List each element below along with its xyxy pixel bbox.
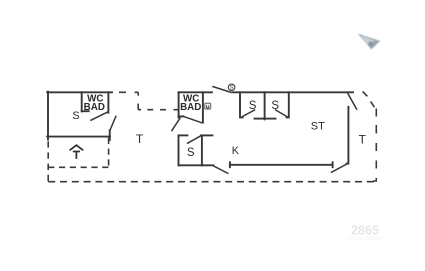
bedroom 1 west wall: [240, 92, 243, 117]
left building west wall: [47, 92, 49, 140]
left building east door leaf: [110, 116, 116, 130]
logo paper plane: [358, 34, 380, 50]
entrance arrow: [70, 145, 84, 159]
left building bottom wall: [47, 136, 110, 138]
spa icon next to BAD: [205, 103, 211, 109]
right building top wall left segment: [179, 91, 212, 93]
smoke detector circle symbol: [228, 84, 235, 91]
left terrace dashed bottom wall: [48, 166, 108, 168]
svg-text:ST: ST: [311, 120, 325, 132]
left terrace dashed west wall: [47, 141, 49, 181]
lower bedroom bottom wall: [179, 164, 214, 166]
bedroom 2 door leaf: [276, 110, 287, 116]
right terrace dashed diagonal: [363, 92, 375, 108]
svg-text:T: T: [136, 132, 144, 146]
southeast door leaf: [332, 164, 348, 173]
bedroom 1 door leaf: [243, 110, 255, 116]
svg-text:T: T: [359, 132, 367, 146]
right terrace dashed east wall: [373, 109, 376, 182]
lower bedroom east wall: [201, 135, 203, 165]
WC/BAD box 1 right wall: [107, 92, 109, 112]
WC/BAD box 1 bottom stub: [82, 110, 89, 112]
bedroom divider wall: [264, 92, 266, 119]
lower bedroom top wall stub: [179, 134, 188, 136]
outer dashed boundary bottom: [48, 181, 376, 183]
left terrace dashed east wall: [108, 138, 110, 168]
svg-text:S: S: [271, 100, 279, 112]
svg-text:BAD: BAD: [180, 102, 201, 113]
svg-text:S: S: [72, 110, 79, 122]
WC/BAD box 2 bottom stub: [179, 115, 184, 117]
left building top wall: [47, 91, 112, 93]
top entrance door leaf: [213, 87, 231, 93]
bottom wall right end tick: [332, 162, 334, 167]
covered walkway dashed lower: [138, 109, 178, 111]
svg-text:K: K: [232, 145, 240, 157]
bottom wall left end tick: [229, 162, 231, 167]
WC/BAD box 2 right wall: [202, 92, 204, 122]
WC/BAD box 1 left wall: [81, 92, 83, 111]
covered walkway dashed vertical: [137, 92, 139, 109]
northeast door leaf: [348, 94, 357, 109]
lower bedroom top wall right segment: [201, 134, 212, 136]
lower bedroom door leaf: [188, 136, 201, 144]
bedroom 2 bottom stub: [265, 118, 276, 120]
lower bedroom west wall: [178, 135, 180, 165]
svg-text:S: S: [187, 147, 195, 159]
covered walkway dashed top: [119, 91, 138, 93]
right building east wall: [347, 107, 349, 164]
svg-text:S: S: [249, 100, 257, 112]
bedroom 2 east wall: [287, 92, 289, 117]
svg-text:BAD: BAD: [84, 102, 105, 113]
west entrance door leaf: [172, 118, 180, 130]
left building east wall stub: [109, 130, 111, 140]
right building top wall main segment: [233, 91, 353, 93]
svg-text:S: S: [230, 85, 234, 91]
WC/BAD box 2 door leaf: [183, 116, 201, 122]
WC/BAD box 2 left wall: [178, 92, 180, 117]
svg-text:SOL OG STRAND: SOL OG STRAND: [348, 236, 382, 241]
right building bottom wall: [230, 164, 333, 166]
WC/BAD box 1 door leaf: [91, 112, 108, 120]
south terrace door leaf: [214, 166, 228, 173]
bedroom 1 bottom stub: [255, 118, 265, 120]
